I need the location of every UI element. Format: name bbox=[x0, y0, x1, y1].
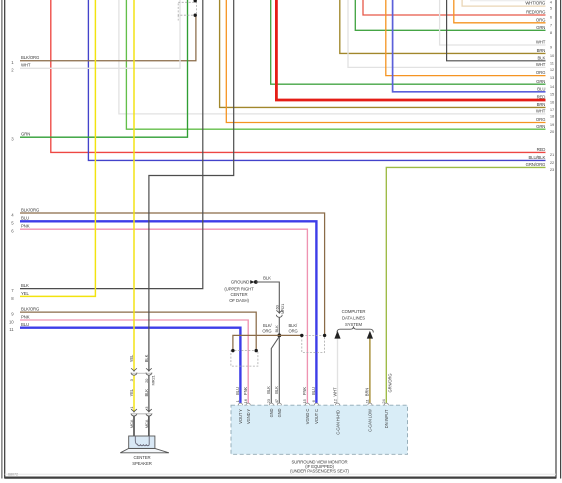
svg-text:MCA: MCA bbox=[144, 419, 149, 428]
svg-text:GROUND: GROUND bbox=[231, 280, 249, 285]
svg-text:WHT/ORG: WHT/ORG bbox=[525, 1, 546, 6]
wire 20 GRN: vertical from top x=126.4 then right to edge bbox=[126, 0, 545, 129]
page border left outer bbox=[1, 0, 3, 479]
svg-text:BLK: BLK bbox=[538, 55, 546, 60]
wire 9 WHT: vertical from top x=439.6 then right to edge bbox=[440, 0, 546, 45]
svg-text:VGND C: VGND C bbox=[305, 409, 310, 425]
svg-text:BLK/: BLK/ bbox=[289, 323, 298, 328]
inline connector (dashed) right: pins for BLK/ORG bus and wire 4, BLU/PNK pass through bbox=[302, 335, 325, 352]
svg-text:ORG: ORG bbox=[536, 117, 546, 122]
wire 17 BRN: vertical from top x=219.6 then right to edge bbox=[220, 0, 546, 107]
wire 7 BLK: from top edge down at x=202.8 then left to label 7 bbox=[20, 0, 203, 289]
inline connector (dashed, top of page) with pins to wire 1 bbox=[178, 2, 196, 15]
svg-text:SYSTEM: SYSTEM bbox=[345, 322, 362, 327]
svg-text:BLK/: BLK/ bbox=[263, 323, 272, 328]
svg-text:COMPUTER: COMPUTER bbox=[342, 309, 366, 314]
wire 10 PNK: label 10 right to x=248.2 then down to monitor pin 16 VGND Y bbox=[20, 320, 248, 405]
wire 2 WHT: from top edge down at x=180 then left to label 2 bbox=[20, 0, 180, 68]
wire 14 GRN: vertical from top x=270.7 then right to edge bbox=[271, 0, 546, 84]
wire 6 RED/ORG: vertical from top x=363.0 then right to edge bbox=[363, 0, 546, 15]
svg-text:WHT: WHT bbox=[536, 62, 546, 67]
svg-text:PNK: PNK bbox=[21, 314, 30, 319]
svg-text:BLK: BLK bbox=[144, 354, 149, 362]
inline connector MR21 pins 3/20 on speaker wires bbox=[131, 368, 137, 371]
speaker connector MCA pins 1/3 bbox=[131, 409, 137, 412]
wire 4 BLK/ORG: label 4 right to x=324.6 then down to inline connector dot bbox=[20, 213, 325, 334]
connector tie line MR21 bbox=[131, 372, 153, 374]
ground symbol (UPPER RIGHT CENTER OF DASH) bbox=[250, 280, 254, 284]
speaker pigtail wire (right, BLK below connector) bbox=[148, 416, 150, 437]
svg-text:PNK: PNK bbox=[21, 224, 30, 229]
svg-text:BLU: BLU bbox=[311, 387, 316, 395]
pin dot upper bbox=[194, 0, 197, 2]
svg-text:BLU: BLU bbox=[21, 322, 29, 327]
ground branch to monitor pin 23 GND (with jog) bbox=[271, 337, 279, 405]
svg-text:WHT: WHT bbox=[332, 387, 337, 397]
svg-text:DN INPUT: DN INPUT bbox=[384, 409, 389, 428]
wire 1 BLK/ORG: from connector dot at top down then left to label 1 bbox=[20, 15, 196, 61]
BLK/ORG bus: horizontal at y=335.4 from corner x=233.1 to right dashed connector bbox=[233, 335, 302, 349]
svg-text:(UPPER RIGHT: (UPPER RIGHT bbox=[224, 287, 254, 292]
svg-text:C-CAN LOW: C-CAN LOW bbox=[368, 409, 373, 432]
svg-text:BLK: BLK bbox=[263, 276, 271, 281]
wire 18 WHT: vertical from top x=118.9 then right to edge bbox=[119, 0, 546, 114]
wire 4 (cut off at top edge) bbox=[470, 0, 546, 2]
wire YEL to center speaker: from top edge down at x=134 through inline connectors bbox=[133, 0, 135, 371]
wire 11 BLU: label 11 right to x=240.4 then down to monitor pin 1 VOUT Y bbox=[20, 328, 240, 405]
svg-text:BLK/ORG: BLK/ORG bbox=[21, 307, 40, 312]
svg-text:GRN: GRN bbox=[21, 132, 30, 137]
svg-text:MCA: MCA bbox=[129, 419, 134, 428]
svg-text:BLU: BLU bbox=[537, 86, 545, 91]
svg-text:BRN: BRN bbox=[537, 48, 546, 53]
svg-text:PNK: PNK bbox=[302, 387, 307, 396]
connector tie line MCA bbox=[131, 413, 153, 415]
svg-text:YEL: YEL bbox=[129, 354, 134, 362]
wire WHT C-CAN HI-HD with up arrow to COMPUTER DATA LINES SYSTEM bbox=[337, 338, 339, 404]
svg-text:GND: GND bbox=[277, 408, 282, 417]
svg-text:RED: RED bbox=[537, 95, 546, 100]
ground branch to monitor pin 47 GND bbox=[278, 337, 280, 405]
svg-text:68072: 68072 bbox=[8, 472, 18, 476]
svg-text:CENTER: CENTER bbox=[134, 455, 151, 460]
inline connector MR21 pin 60 bbox=[276, 310, 282, 313]
svg-text:GRN: GRN bbox=[536, 79, 545, 84]
svg-text:BLK/ORG: BLK/ORG bbox=[21, 55, 40, 60]
svg-text:BRN: BRN bbox=[365, 388, 370, 397]
wire 13 ORG: vertical from top x=385.8 then right to edge bbox=[386, 0, 546, 76]
wire 22 BLU/BLK: vertical from top x=88.4 then right to edge bbox=[88, 0, 545, 160]
svg-text:MR21: MR21 bbox=[280, 303, 285, 314]
wire 15 BLU: vertical from top x=392.6 then right to edge bbox=[393, 0, 546, 92]
svg-text:ORG: ORG bbox=[289, 329, 298, 334]
svg-text:YEL: YEL bbox=[129, 388, 134, 396]
wire BRN C-CAN LOW with up arrow to COMPUTER DATA LINES SYSTEM bbox=[369, 338, 371, 404]
surround view monitor block bbox=[231, 405, 408, 454]
svg-text:BLK: BLK bbox=[274, 325, 279, 333]
wire 5 BLU: label 5 right to x=316.4 then down to monitor pin 6 VOUT C bbox=[20, 221, 316, 404]
svg-text:VGND Y: VGND Y bbox=[246, 409, 251, 424]
inline connector (dashed) below junction: pins for BLK/ORG wires, BLU/PNK pass through bbox=[231, 351, 258, 367]
wire 11 BLK: vertical from top x=446.6 then right to edge bbox=[447, 0, 546, 61]
svg-text:RED: RED bbox=[537, 147, 546, 152]
svg-text:VOUT Y: VOUT Y bbox=[238, 409, 243, 424]
svg-text:WHT: WHT bbox=[536, 40, 546, 45]
wire 9 BLK/ORG: label 9 right to x=256.2 then down to inline connector dot bbox=[20, 312, 256, 349]
svg-text:C-CAN HI-HD: C-CAN HI-HD bbox=[335, 410, 340, 435]
voice coil squiggle bbox=[135, 436, 149, 446]
svg-text:WHT: WHT bbox=[21, 63, 31, 68]
svg-text:GND: GND bbox=[269, 408, 274, 417]
svg-text:BLK: BLK bbox=[144, 389, 149, 397]
svg-text:BLK: BLK bbox=[274, 386, 279, 394]
page border right inner bbox=[555, 0, 557, 479]
svg-text:CENTER: CENTER bbox=[231, 292, 248, 297]
wire 21 RED: vertical from top x=50.8 then right to edge bbox=[51, 0, 546, 152]
wire 16 RED: vertical from top x=276.4 then right to edge bbox=[276, 0, 545, 100]
wire 12 WHT: vertical from top x=348.0 then right to edge bbox=[348, 0, 546, 67]
page border left inner bbox=[4, 0, 6, 479]
wire 10 BRN: vertical from top x=339.8 then right to edge bbox=[340, 0, 546, 53]
svg-text:MR21: MR21 bbox=[150, 374, 155, 385]
svg-text:VOUT C: VOUT C bbox=[314, 409, 319, 424]
svg-text:WHT: WHT bbox=[536, 109, 546, 114]
page border right outer bbox=[560, 0, 562, 479]
wire 23 GRN/ORG: from right edge left to x=386.3 then down to monitor pin 24 DN INPUT bbox=[386, 167, 545, 404]
wire 5 WHT/ORG: vertical from top x=462.1 then right to edge bbox=[462, 0, 545, 6]
wire 19 ORG: vertical from top x=226.3 then right to edge bbox=[226, 0, 545, 123]
svg-text:GRN/ORG: GRN/ORG bbox=[388, 374, 393, 393]
svg-text:GRN: GRN bbox=[536, 25, 545, 30]
wire BLK to center speaker: from top edge down at x=233.7, jog left at y=175.5 to x=148.9, down through connectors bbox=[149, 0, 234, 371]
wire 3 GRN: from top edge down at x=187.5 then left to label 3 bbox=[20, 0, 188, 137]
page border bottom bbox=[5, 477, 556, 479]
svg-text:11: 11 bbox=[9, 327, 14, 332]
svg-text:10: 10 bbox=[9, 319, 14, 324]
svg-text:PNK: PNK bbox=[243, 387, 248, 396]
junction node: BLK ground joins BLK/ORG wires bbox=[277, 334, 281, 338]
svg-text:GRN/ORG: GRN/ORG bbox=[526, 162, 546, 167]
wire 6 PNK: label 6 right to x=307.4 then down to monitor pin 15 VGND C bbox=[20, 229, 307, 404]
svg-text:YEL: YEL bbox=[21, 291, 29, 296]
svg-text:BLK: BLK bbox=[21, 283, 29, 288]
svg-text:GRN: GRN bbox=[536, 124, 545, 129]
svg-text:ORG: ORG bbox=[536, 17, 546, 22]
footer separator line bbox=[5, 473, 556, 475]
svg-text:ORG: ORG bbox=[536, 70, 546, 75]
pin dot lower (wire 1) bbox=[194, 14, 197, 17]
svg-text:BLK/ORG: BLK/ORG bbox=[21, 207, 40, 212]
svg-text:BLU: BLU bbox=[235, 387, 240, 395]
svg-text:BLU: BLU bbox=[21, 216, 29, 221]
center speaker symbol bbox=[120, 448, 169, 452]
svg-text:SPEAKER: SPEAKER bbox=[132, 461, 151, 466]
svg-text:BLU/BLK: BLU/BLK bbox=[528, 155, 545, 160]
svg-text:BLK: BLK bbox=[266, 386, 271, 394]
svg-text:ORG: ORG bbox=[262, 329, 271, 334]
speaker pigtail wire (left, BLK below connector) bbox=[133, 416, 135, 437]
brace and text COMPUTER DATA LINES SYSTEM bbox=[337, 326, 373, 332]
wire 8 YEL: from top edge down at x=95.4 then left to label 8 bbox=[20, 0, 95, 296]
svg-text:RED/ORG: RED/ORG bbox=[526, 10, 546, 15]
svg-text:DATA LINES: DATA LINES bbox=[342, 316, 365, 321]
svg-text:(UNDER PASSENGER'S SEAT): (UNDER PASSENGER'S SEAT) bbox=[290, 468, 349, 473]
svg-text:OF DASH): OF DASH) bbox=[229, 298, 249, 303]
wire 7 ORG: vertical from top x=453.8 then right to edge bbox=[454, 0, 546, 23]
wire 8 GRN: vertical from top x=355.3 then right to edge bbox=[355, 0, 545, 30]
svg-text:BRN: BRN bbox=[537, 102, 546, 107]
